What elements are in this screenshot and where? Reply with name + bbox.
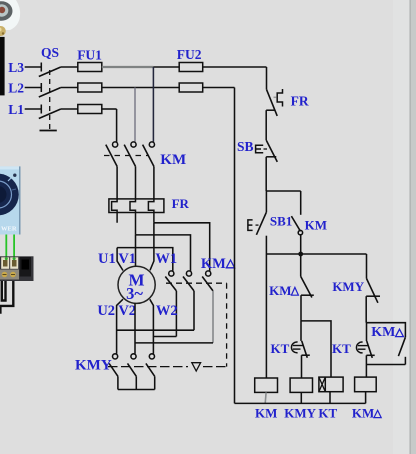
- svg-text:SB: SB: [237, 139, 254, 154]
- node L1 label: [8, 102, 24, 117]
- svg-text:U2: U2: [97, 303, 115, 319]
- contactor KM main contact 1: [113, 142, 118, 147]
- label V1: [118, 251, 136, 267]
- wire phase C drop (navy): [152, 67, 154, 142]
- svg-text:QS: QS: [41, 45, 59, 60]
- svg-text:L3: L3: [8, 60, 24, 75]
- contactor KM-delta main contact 2: [186, 271, 191, 276]
- interlock dashed horizontal: [108, 366, 188, 368]
- photo: round device top-left: [0, 0, 20, 30]
- KMY star point bus: [118, 389, 155, 391]
- node junction dot: [298, 252, 303, 257]
- KM auxiliary self-hold contact: [300, 191, 302, 215]
- label U2: [97, 303, 115, 319]
- svg-text:L2: L2: [8, 80, 24, 95]
- label FU2: [177, 47, 202, 62]
- label FR (control): [291, 94, 309, 109]
- control: FR NC contact: [266, 67, 268, 89]
- wire FU2 bottom to return line: [203, 87, 235, 89]
- label U1: [98, 251, 116, 267]
- label QS: [41, 45, 59, 60]
- svg-text:KMY: KMY: [332, 279, 364, 294]
- svg-text:KMY: KMY: [284, 406, 316, 421]
- QS pole 3 blade: [39, 109, 61, 119]
- thermal relay FR heaters box: [109, 199, 164, 213]
- svg-text:W1: W1: [155, 251, 177, 267]
- wire L3 after fuse (gray): [102, 66, 154, 68]
- wire phase A drop: [116, 109, 118, 142]
- wire L2 after fuse: [102, 87, 179, 89]
- coil KT with delay cell: [319, 377, 343, 392]
- label KT (left contact): [271, 341, 290, 356]
- svg-text:V2: V2: [118, 303, 136, 319]
- contactor KMY contact 1: [113, 354, 118, 359]
- wire L2 input stub: [25, 87, 42, 89]
- contactor KMY contact 2: [131, 354, 136, 359]
- label KM-delta (coil): [352, 406, 374, 421]
- wire L2 to FU1: [61, 87, 78, 89]
- KT delayed contact (left): [302, 341, 308, 358]
- contactor KM main contact 2: [131, 142, 136, 147]
- fuse FU2 top: [179, 63, 203, 72]
- wire KM coil to bus (gray): [264, 392, 267, 403]
- right window edge band: [393, 0, 410, 454]
- KM linkage dashed: [104, 155, 149, 157]
- wire L3 to FU2: [153, 66, 179, 68]
- fuse FU1 pole3: [78, 105, 102, 114]
- label KM-delta (main): [201, 256, 226, 272]
- svg-text:L1: L1: [8, 102, 24, 117]
- wire W2 to KM-delta out1: [153, 336, 176, 338]
- QS pole 3 fixed contact: [40, 105, 42, 114]
- wire L3 to FU1: [61, 66, 78, 68]
- wire tap phase A to KM-delta c1: [117, 248, 173, 271]
- KMY NC interlock contact: [366, 254, 368, 279]
- control return line: [234, 88, 236, 404]
- FR heater pole 3: [148, 199, 154, 223]
- label W1: [155, 251, 177, 267]
- wire phase A to motor U1: [117, 248, 123, 271]
- photo: green wires: [5, 235, 7, 259]
- QS pole 2 fixed contact: [40, 83, 42, 92]
- QS pole 1 blade: [39, 67, 61, 77]
- label V2: [118, 303, 136, 319]
- start button SB1: [265, 191, 267, 212]
- fuse FU1 pole1: [78, 63, 102, 72]
- node L3 label: [8, 60, 24, 75]
- wire tap phase C to KM-delta c3: [154, 223, 210, 271]
- wire phase C to motor W1: [150, 223, 154, 270]
- photo: terminal block: [0, 256, 34, 281]
- svg-text:FR: FR: [172, 196, 190, 211]
- wire L1 to FU1: [61, 108, 78, 110]
- wire phase B to motor V1: [135, 235, 137, 266]
- label SB1: [270, 214, 292, 229]
- stop button SB: [266, 140, 277, 162]
- svg-text:U1: U1: [98, 251, 116, 267]
- svg-text:V1: V1: [118, 251, 136, 267]
- label SB: [237, 139, 254, 154]
- wire tap phase B to KM-delta c2: [136, 235, 191, 271]
- fuse FU1 pole2: [78, 83, 102, 92]
- wire L1 after fuse: [102, 108, 117, 110]
- contactor KMY contact 3: [149, 354, 154, 359]
- coil KMY: [290, 378, 312, 392]
- svg-text:KM: KM: [269, 283, 291, 298]
- label M: [128, 271, 144, 290]
- svg-text:KM: KM: [371, 325, 395, 340]
- label KMY (coil): [284, 406, 316, 421]
- coil KM-delta: [355, 377, 377, 392]
- label KM (main): [160, 152, 186, 168]
- wire KMY coil to bus: [300, 392, 302, 403]
- photo: gold ball: [0, 26, 6, 36]
- bottom bus: [235, 402, 366, 404]
- svg-text:KM: KM: [305, 218, 327, 233]
- label 3~: [126, 284, 143, 303]
- photo: timer device: [0, 166, 21, 234]
- KT delayed contact (right): [366, 323, 368, 341]
- svg-text:KT: KT: [332, 341, 351, 356]
- QS linkage dashed: [49, 70, 51, 129]
- svg-text:FU2: FU2: [177, 47, 202, 62]
- label KT (coil): [318, 406, 337, 421]
- svg-text:KT: KT: [318, 406, 337, 421]
- FR heater pole 2: [130, 199, 136, 235]
- label KMY (main): [75, 358, 112, 374]
- tee to KT coil: [301, 321, 331, 377]
- KM-delta linkage dashed: [166, 282, 227, 284]
- coil KM: [255, 378, 278, 392]
- SB1 actuator E: [248, 220, 253, 231]
- wire U2 to KM-delta out2: [117, 329, 194, 331]
- svg-text:W2: W2: [156, 303, 178, 319]
- wire L1 input stub: [25, 108, 42, 110]
- KM-delta self-hold loop top: [366, 323, 405, 338]
- svg-text:KM: KM: [255, 406, 277, 421]
- svg-text:KM: KM: [160, 152, 186, 168]
- wire L3 input stub: [25, 66, 42, 68]
- wire V2 to KM-delta out3: [135, 342, 213, 344]
- label FU1: [77, 47, 102, 62]
- junction bus: [266, 253, 366, 255]
- wire to KT contact: [300, 321, 302, 341]
- wire phase B drop (gray): [134, 88, 136, 142]
- contactor KM-delta main contact 3: [206, 271, 211, 276]
- interlock triangle: [192, 363, 201, 371]
- svg-text:KMY: KMY: [75, 358, 112, 374]
- motor M circle: [118, 266, 155, 303]
- label KM-delta (NC): [269, 283, 291, 298]
- svg-text:WER: WER: [1, 226, 17, 233]
- SB actuator E: [256, 145, 264, 153]
- KM-delta NO contact in loop: [398, 337, 405, 356]
- interlock dashed vertical: [226, 283, 228, 366]
- label KT (right contact): [332, 341, 351, 356]
- svg-text:KM: KM: [201, 256, 226, 272]
- svg-text:SB1: SB1: [270, 214, 292, 229]
- node L2 label: [8, 80, 24, 95]
- QS pole 2 blade: [39, 88, 61, 98]
- contactor KM main contact 3: [149, 142, 154, 147]
- wire motor V2 down: [134, 303, 136, 353]
- photo: black hookup wires: [2, 281, 6, 301]
- wire to KM coil: [265, 254, 267, 378]
- label KM (aux): [305, 218, 327, 233]
- svg-text:KT: KT: [271, 341, 290, 356]
- photo: black bar: [0, 37, 5, 96]
- QS handle bar: [40, 130, 57, 132]
- label KM (coil): [255, 406, 277, 421]
- tee to parallel start branch: [266, 190, 301, 192]
- svg-text:FU1: FU1: [77, 47, 102, 62]
- wire motor W2 down: [150, 299, 154, 354]
- label W2: [156, 303, 178, 319]
- FR heater pole 1: [112, 199, 118, 223]
- fuse FU2 bottom: [179, 83, 203, 92]
- wire motor U2 down: [117, 299, 123, 354]
- KM-delta NC interlock contact: [300, 254, 302, 276]
- svg-text:3~: 3~: [126, 284, 143, 303]
- wire KT coil to bus: [329, 392, 331, 404]
- label FR (main): [172, 196, 190, 211]
- svg-text:FR: FR: [291, 94, 309, 109]
- label KMY (NC): [332, 279, 364, 294]
- wire KM-delta coil to bus: [365, 392, 367, 404]
- FR trip bracket: [277, 89, 282, 107]
- contactor KM-delta main contact 1: [169, 271, 174, 276]
- wire FU2 top to control: [203, 66, 267, 68]
- label KM-delta (loop): [371, 325, 395, 340]
- QS pole 1 fixed contact: [40, 63, 42, 72]
- loop bottom: [366, 364, 405, 366]
- svg-text:KM: KM: [352, 406, 374, 421]
